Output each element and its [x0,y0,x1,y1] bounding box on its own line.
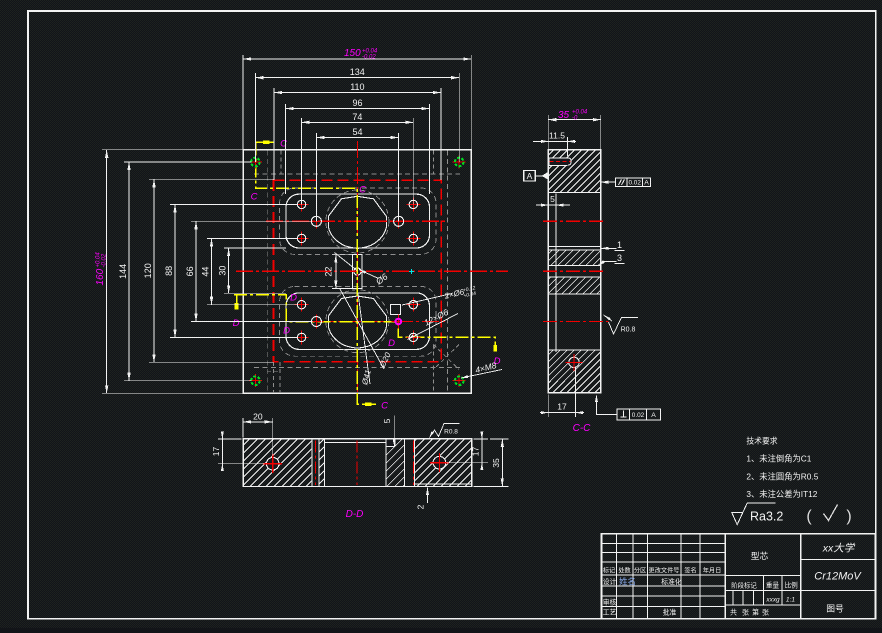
slot cutout top [286,194,430,248]
svg-text:134: 134 [350,67,365,77]
svg-text:D: D [290,293,297,304]
svg-text:xx大学: xx大学 [822,543,856,555]
dimension 44 left [211,238,213,304]
extension line horizontal 12 [207,304,298,306]
extension line horizontal 11 [207,237,298,239]
dimension 20 D-D [243,421,273,423]
svg-text:-0.02: -0.02 [102,253,108,267]
leader 2xphi6 toleranced [402,294,452,306]
svg-text:型芯: 型芯 [751,550,769,561]
extension line vertical 1 [242,55,244,150]
perpendicularity tolerance frame [617,409,661,420]
surface finish Ra3.2 global [732,512,743,524]
D-D red centerlines vertical [314,441,316,486]
dimension 120 left [153,179,155,362]
corner boss hidden X bottom-right [434,345,460,370]
svg-text:5: 5 [382,418,392,423]
D-D left hole circle [263,454,282,473]
leader 12xphi6 [408,314,459,340]
svg-text:150: 150 [344,48,361,59]
title block main verticals [724,534,726,619]
svg-text:D: D [283,326,290,337]
svg-text:C: C [381,401,388,412]
extension line vertical 8 [429,104,431,194]
svg-text:17: 17 [211,447,221,457]
dimension 160 left (toleranced) [106,150,108,393]
extension line horizontal 13 [224,247,286,249]
C-C left step line [555,194,557,353]
svg-text:66: 66 [185,266,195,276]
svg-text:A: A [527,171,533,181]
svg-text:22: 22 [324,267,334,277]
svg-text:11.5: 11.5 [549,131,565,141]
corner boss hidden box top-left [280,151,282,175]
extension lines for 22 [332,254,352,256]
svg-text:张: 张 [742,608,749,617]
dimension 150 top (toleranced) [243,58,471,60]
D-D bottom step line [415,483,472,485]
hole phi6 3 [295,231,309,245]
corner boss hidden box bottom-left [273,362,275,393]
D-D counterbore notch [394,439,396,447]
leader R41 [358,293,370,384]
extension line vertical 7 [285,104,287,194]
svg-text:74: 74 [352,112,362,122]
svg-text:R0.8: R0.8 [621,327,636,334]
left table horizontals [602,543,726,545]
parallelism leader arrow [601,181,616,183]
dashed circle around bottom octagon [326,290,389,353]
svg-text:设计: 设计 [603,577,617,586]
svg-text:姓名: 姓名 [619,577,636,587]
corner boss hidden box top-right [432,151,434,175]
D-D counterbore step lines [324,441,386,443]
surface finish Ra0.8 mid [604,315,639,334]
svg-text:88: 88 [164,266,174,276]
svg-text:C-C: C-C [573,423,592,434]
extension line horizontal 9 [191,220,312,222]
svg-text:120: 120 [143,263,153,278]
svg-text:20: 20 [253,411,263,421]
C-C red centerline middle [543,270,606,272]
extension line horizontal 4 [124,380,252,382]
svg-text:签名: 签名 [684,567,696,575]
section D-D bar outline [243,439,472,487]
svg-text:2: 2 [416,504,426,509]
svg-text:3、未注公差为IT12: 3、未注公差为IT12 [746,489,817,499]
leader 3 [598,261,617,265]
svg-text:标记: 标记 [603,567,615,575]
dimension 17 D-D right [481,435,483,467]
svg-text:2、未注圆角为R0.5: 2、未注圆角为R0.5 [746,472,818,482]
dimension 74 top [302,121,414,123]
svg-text:0.02: 0.02 [632,412,645,419]
svg-text:30: 30 [218,266,228,276]
svg-text:第: 第 [752,608,759,617]
extension line vertical 10 [412,118,414,204]
main view plate outline [243,150,471,393]
extension line vertical 9 [301,118,303,204]
parallelism tolerance frame [616,178,651,187]
svg-text:年月日: 年月日 [703,567,722,575]
svg-text:5: 5 [550,194,555,204]
pocket dashed outline around bottom slot [280,286,436,356]
extension line vertical 12 [398,133,400,221]
slot cutout bottom [286,293,430,350]
left table verticals [616,534,618,619]
surface finish symbol D-D [430,424,460,438]
red horizontal centerline main [236,270,508,272]
leader 1 [601,247,617,249]
svg-text:标准化: 标准化 [661,577,682,586]
svg-text:比例: 比例 [785,581,799,590]
extension line vertical 6 [440,88,442,180]
dimension 66 left [195,221,197,321]
extension line horizontal 7 [170,203,298,205]
gray hidden line vertical left [266,151,268,393]
dimension 11.5 [533,140,576,142]
dimension 22 middle [335,255,337,289]
C-C red centerline bottom slot [543,321,609,323]
corner hole M8 green 1 [249,156,262,169]
svg-text:35: 35 [491,458,501,468]
svg-text:技术要求: 技术要求 [746,436,777,446]
svg-text:分区: 分区 [634,567,646,575]
svg-text:A: A [644,180,649,187]
extension line horizontal 1 [102,149,243,151]
corner hole M8 green 4 [453,374,466,387]
svg-text:17: 17 [471,447,481,457]
dimension 110 top [274,92,441,94]
svg-text:1、未注倒角为C1: 1、未注倒角为C1 [746,454,811,464]
C-C keyway notch [549,158,571,166]
red horizontal centerline top slot [266,220,446,222]
C-C red centerline top slot [543,220,606,222]
dimension 96 top [286,108,430,110]
gray hidden line horizontal upper [254,173,460,175]
right column dividers [801,559,876,561]
C-C 35 extension lines [547,115,549,150]
dashed circle around top octagon [326,190,389,253]
magenta highlighted point [391,315,405,329]
die hole octagon bottom [328,296,386,348]
leader R20 [340,289,384,369]
leader crossing line [335,253,358,271]
hole phi6 7 [295,298,309,312]
hole phi6 10 [406,330,420,344]
dimension 54 top [316,137,398,139]
extension line horizontal 14 [224,292,286,294]
svg-text:Cr12MoV: Cr12MoV [814,571,862,583]
svg-text:): ) [846,508,851,525]
extension line horizontal 2 [102,392,243,394]
C-C internal horizontal edges [548,192,601,194]
hole phi6 4 [406,231,420,245]
datum A symbol [524,171,536,181]
extension line vertical 3 [254,73,256,162]
hole phi6 9 [295,330,309,344]
middle column dividers [725,575,801,577]
svg-text:共: 共 [730,608,737,617]
C-C dowel hole circle [566,354,583,371]
svg-text:35: 35 [558,110,570,121]
leader 4xM8 [461,370,502,379]
svg-text:160: 160 [95,268,106,285]
extension line horizontal 8 [170,336,298,338]
title block outer frame [602,534,876,619]
C-C keyway red dashed centerline [550,161,571,163]
svg-text:处数: 处数 [618,567,631,575]
svg-text:张: 张 [762,608,769,617]
dimension 134 top [255,77,459,79]
perpendicularity leader [597,396,618,415]
leader 2 D-D [427,488,429,504]
dimension 30 left [228,248,230,293]
svg-text:图号: 图号 [826,604,844,614]
svg-text:96: 96 [352,98,362,108]
svg-text:54: 54 [352,127,362,137]
hole phi6 11 [309,315,323,329]
hole phi6 8 [406,298,420,312]
svg-text:工艺: 工艺 [603,609,617,617]
square punch hole bottom slot [391,305,401,315]
svg-text:0.02: 0.02 [628,180,641,187]
svg-text:A: A [651,412,656,419]
svg-text:D-D: D-D [346,509,364,520]
yellow arrow C bottom [365,402,372,406]
red hidden pocket rectangle [273,180,441,362]
extension line horizontal 5 [149,178,273,180]
corner hole M8 green 2 [453,156,466,169]
red vertical centerline [356,141,358,404]
gray hidden line horizontal lower [254,367,460,369]
extension line horizontal 6 [149,361,273,363]
dimension 35 D-D [501,439,503,487]
dimension 35 top of C-C (toleranced) [548,119,601,121]
svg-text:-0: -0 [572,116,578,122]
extension line vertical 4 [458,73,460,162]
center small circle phi6 [354,268,361,275]
extension line vertical 2 [470,55,472,150]
pocket dashed outline around top slot [280,188,436,254]
center channel rectangle between octagons [352,255,362,289]
svg-text:C: C [251,192,258,203]
svg-text:批准: 批准 [663,608,677,617]
gray hidden line vertical right [446,151,448,393]
svg-text:xxxg: xxxg [765,597,780,604]
dimension 17 bottom of C-C [540,412,584,414]
svg-text:C: C [280,139,287,150]
red horizontal centerline bottom slot [266,321,446,323]
svg-text:重量: 重量 [766,582,780,590]
svg-text:更改文件号: 更改文件号 [649,567,680,575]
svg-text:3: 3 [617,253,622,263]
hole phi6 1 [295,197,309,211]
D-D internal verticals [311,439,313,487]
svg-text:C: C [359,185,366,196]
svg-text:Ra3.2: Ra3.2 [750,510,783,524]
svg-text:1:1: 1:1 [786,597,795,604]
svg-text:(: ( [806,508,812,525]
yellow section line C-C [256,142,376,404]
svg-text:D: D [233,318,240,329]
dimension 144 left [128,162,130,381]
leader phi6 center [359,270,379,279]
hole phi6 6 [392,214,406,228]
corner hole M8 green 3 [249,374,262,387]
section C-C body outline [548,150,601,393]
hole phi6 5 [309,214,323,228]
yellow arrow D left [235,303,239,310]
dimension 88 left [174,204,176,337]
dimension 17 D-D left [221,435,223,468]
die hole octagon top [328,196,386,248]
svg-text:44: 44 [201,267,211,277]
svg-text:-0.02: -0.02 [362,55,376,61]
svg-text:17: 17 [557,402,567,412]
svg-text:D: D [388,338,395,349]
svg-text:1: 1 [617,240,622,250]
yellow arrow C top [263,140,270,144]
D-D right hole circle [430,453,449,472]
cyan node tick [409,270,414,272]
svg-text:R0.8: R0.8 [444,429,458,436]
hole phi6 2 [406,197,420,211]
extension line vertical 5 [273,88,275,180]
yellow section line D-D [234,295,495,351]
svg-text:144: 144 [118,264,128,279]
extension line horizontal 3 [124,161,252,163]
yellow arrow D right [493,345,497,352]
extension line horizontal 10 [191,321,312,323]
svg-text:阶段标记: 阶段标记 [731,581,757,590]
svg-text:110: 110 [350,82,364,92]
svg-text:审核: 审核 [603,598,617,607]
extension line vertical 11 [315,133,317,221]
